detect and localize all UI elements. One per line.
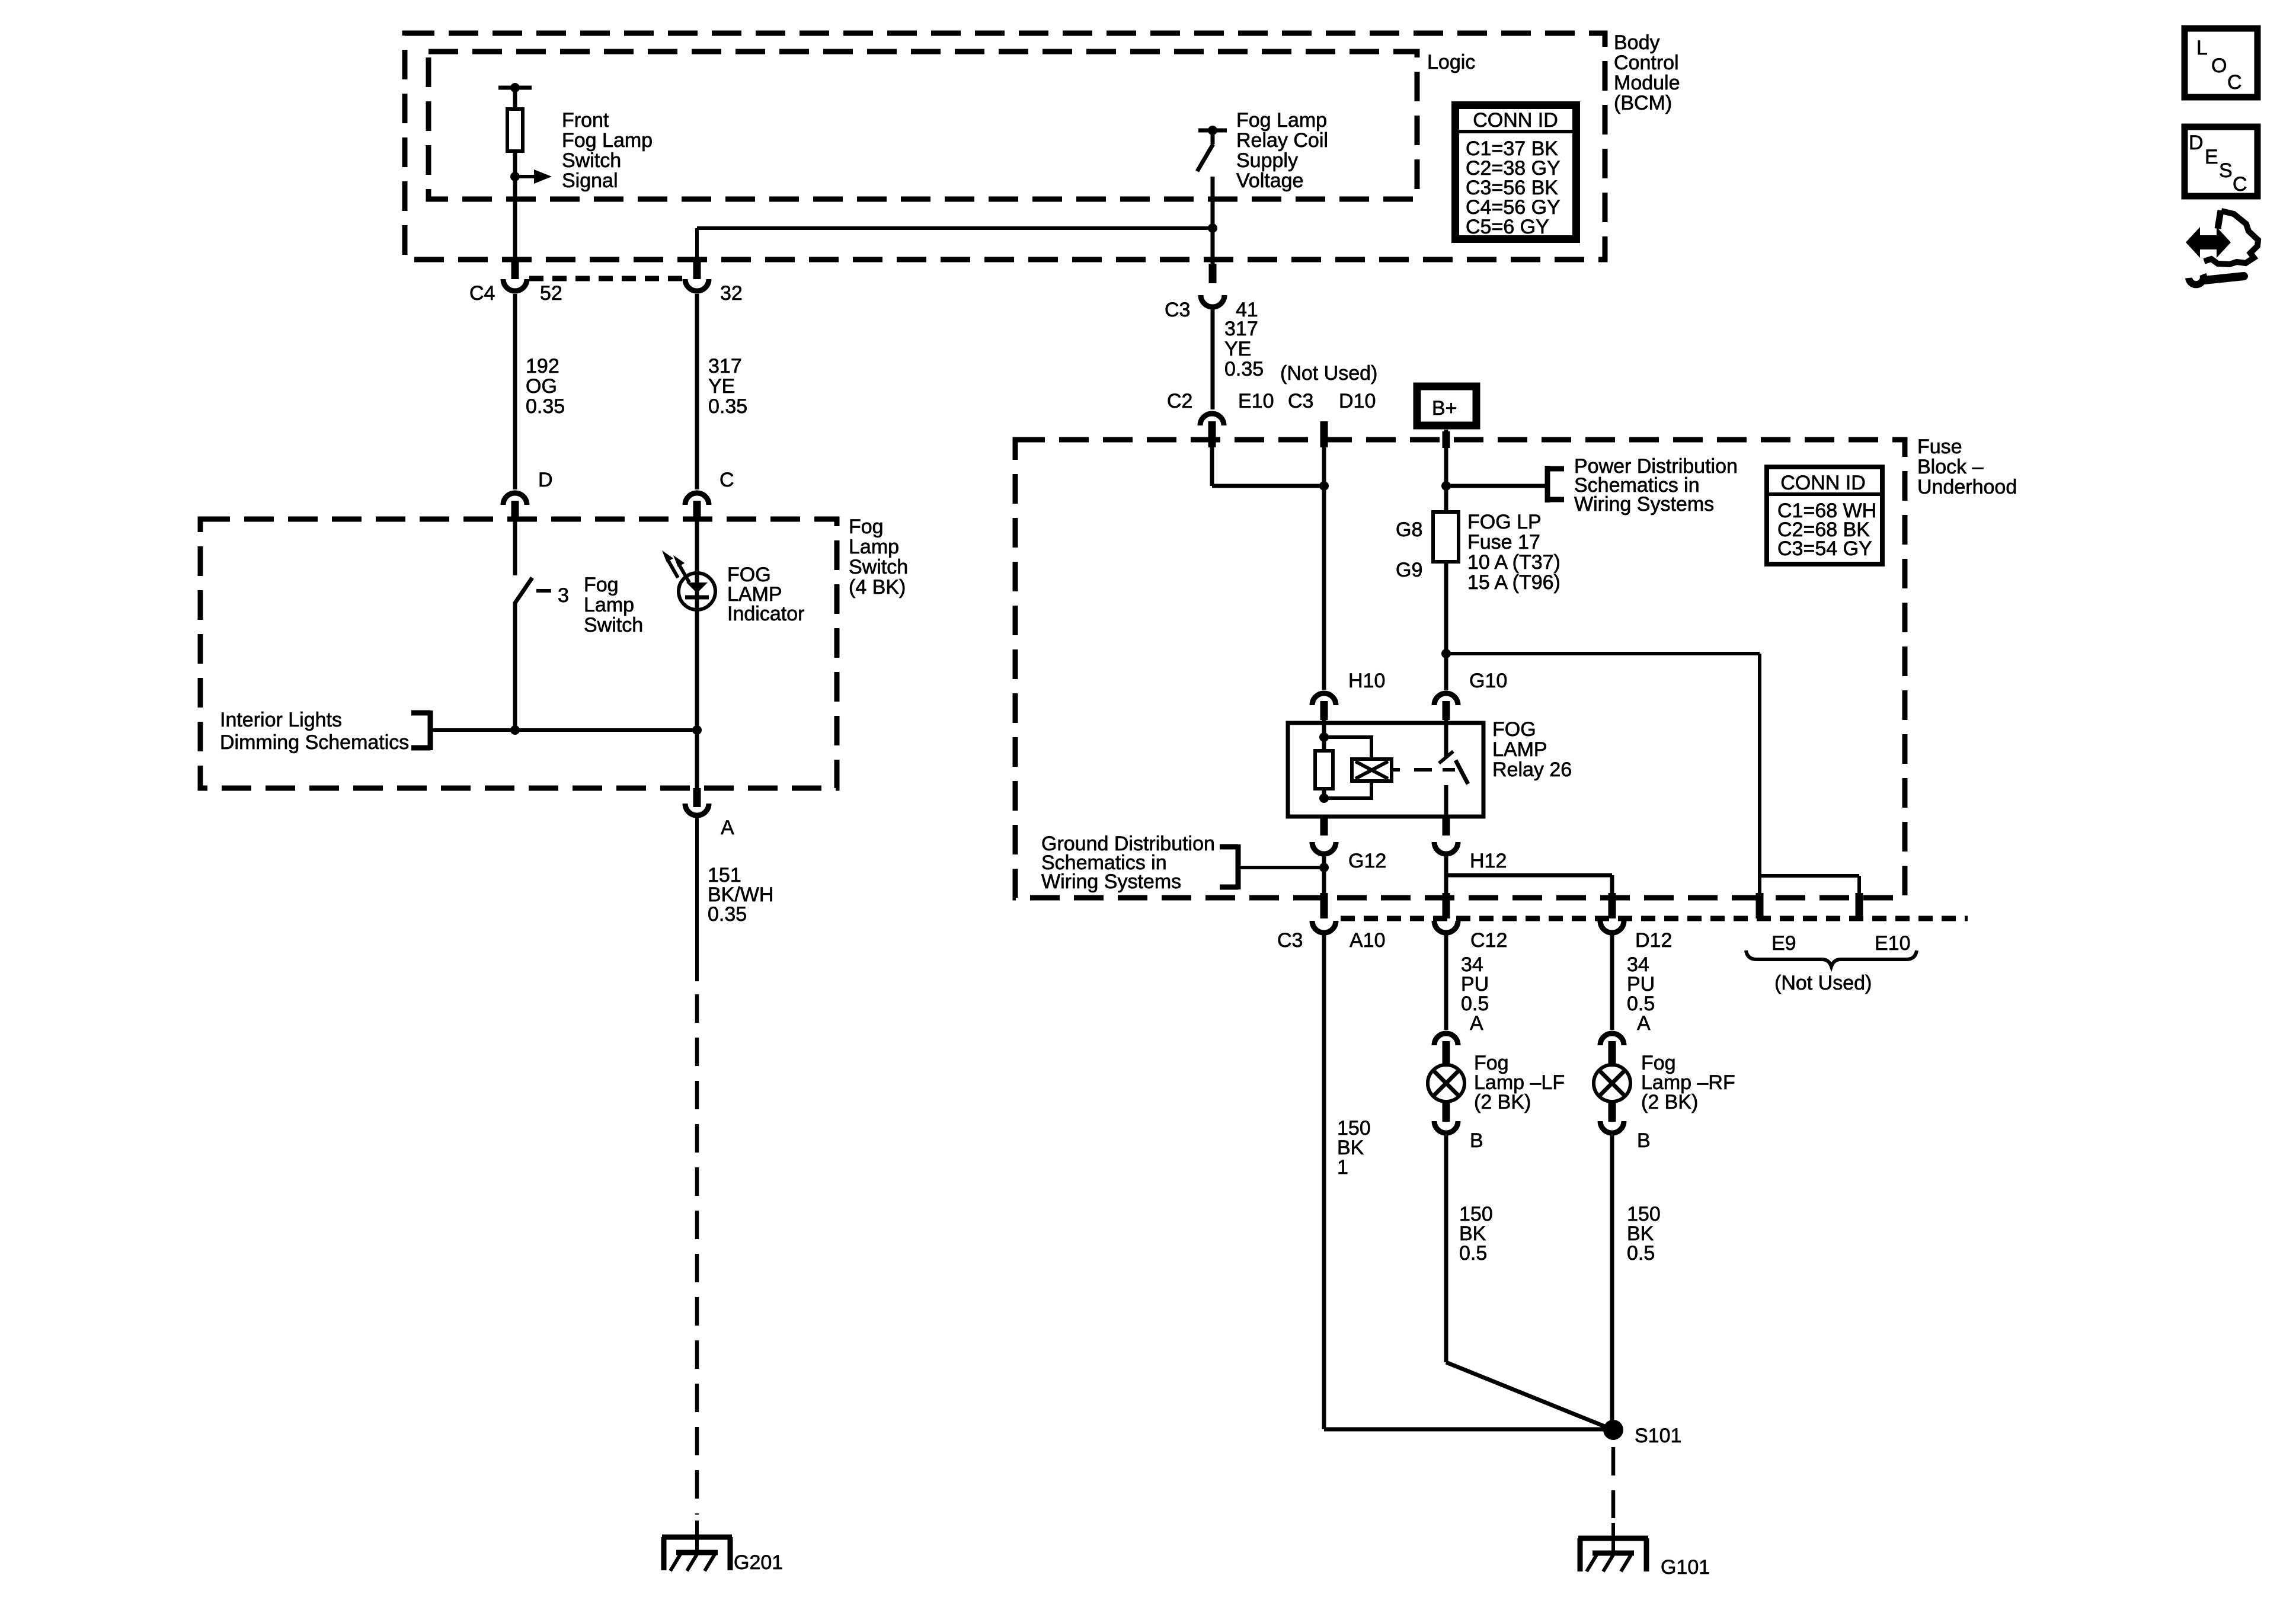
svg-text:1: 1 — [1337, 1156, 1348, 1179]
svg-text:Fog Lamp: Fog Lamp — [1236, 109, 1327, 132]
svg-text:YE: YE — [708, 375, 735, 398]
svg-text:Switch: Switch — [584, 614, 643, 636]
svg-text:C: C — [2233, 173, 2247, 196]
svg-text:C3: C3 — [1288, 390, 1313, 412]
svg-text:0.35: 0.35 — [1224, 358, 1264, 380]
connector C3 pin A10 — [1277, 893, 1386, 952]
wire horizontal logic 32 to switch — [697, 223, 1217, 233]
svg-text:O: O — [2211, 55, 2227, 77]
Logic inner dashed box — [428, 52, 1417, 199]
connector C4 pin 52 — [469, 260, 562, 305]
svg-text:Signal: Signal — [562, 169, 618, 192]
fuse FOG LP Fuse 17 — [1396, 511, 1560, 594]
LED fog lamp indicator — [662, 518, 804, 790]
svg-text:C5=6 GY: C5=6 GY — [1466, 216, 1549, 238]
svg-text:D10: D10 — [1339, 390, 1376, 412]
wire 34 PU 0.5 LF — [1446, 933, 1489, 1035]
svg-text:A: A — [1470, 1012, 1483, 1035]
wire BCM pin 32 to logic — [695, 228, 699, 261]
svg-text:B: B — [1470, 1129, 1483, 1152]
splice S101 — [1603, 1420, 1681, 1447]
svg-text:C12: C12 — [1470, 929, 1507, 952]
fog lamp LF — [1428, 1052, 1565, 1113]
svg-text:0.5: 0.5 — [1627, 1242, 1655, 1265]
dashed ground wire to G101 — [1611, 1447, 1616, 1518]
connector B fog lamp RF — [1600, 1102, 1651, 1152]
svg-text:FOG: FOG — [1492, 718, 1536, 741]
svg-text:Fog Lamp: Fog Lamp — [562, 129, 653, 152]
bracket: Ground Distribution Schematics in Wiring Systems — [1041, 833, 1238, 893]
svg-text:C: C — [720, 469, 734, 491]
connector C12 — [1434, 893, 1507, 952]
svg-text:G12: G12 — [1348, 850, 1386, 872]
svg-text:(Not Used): (Not Used) — [1280, 362, 1377, 385]
pin E9 tick — [1756, 893, 1796, 955]
wire resistor to C4 — [513, 177, 517, 261]
svg-text:LAMP: LAMP — [1492, 738, 1547, 761]
CONN ID table U2 (fuse block) — [1767, 467, 1882, 564]
brace (Not Used) E9-E10 — [1746, 950, 1917, 994]
svg-text:OG: OG — [526, 375, 557, 398]
connector C3 pin 41 — [1165, 264, 1258, 321]
connector C2 pin E10 (fuse block) — [1167, 390, 1274, 447]
svg-text:E10: E10 — [1238, 390, 1274, 412]
svg-text:E10: E10 — [1875, 932, 1911, 955]
pins C3 D10 not used tick — [1288, 390, 1376, 447]
wire G12 down to C3 A10 — [1322, 854, 1326, 896]
svg-text:H12: H12 — [1470, 850, 1507, 872]
(Not Used) label top — [1280, 362, 1377, 385]
wire 150 BK 0.5 RF to S101 — [1612, 1133, 1661, 1430]
svg-text:A: A — [1637, 1012, 1651, 1035]
ground G201 — [662, 1521, 783, 1574]
svg-text:Fuse: Fuse — [1917, 436, 1962, 458]
wire switch down to C3 — [1211, 177, 1215, 264]
BCM outer dashed box — [405, 33, 1605, 260]
wire 151 BK/WH 0.35 — [697, 815, 773, 981]
svg-text:G8: G8 — [1396, 518, 1422, 541]
svg-text:S: S — [2219, 159, 2233, 182]
svg-text:A10: A10 — [1350, 929, 1386, 952]
switch: fog lamp relay coil supply voltage — [1197, 109, 1328, 192]
connector D12 — [1600, 893, 1672, 952]
svg-text:B: B — [1637, 1129, 1651, 1152]
wire H12 down, branch to C12 and D12 — [1446, 854, 1612, 896]
wire 150 BK 1 to S101 — [1324, 933, 1613, 1429]
svg-text:L: L — [2196, 37, 2208, 59]
svg-text:G9: G9 — [1396, 559, 1422, 581]
svg-text:Wiring Systems: Wiring Systems — [1574, 493, 1714, 516]
svg-text:15 A (T96): 15 A (T96) — [1467, 571, 1560, 594]
svg-text:(BCM): (BCM) — [1614, 92, 1672, 114]
fog lamp RF — [1594, 1052, 1735, 1113]
svg-text:Switch: Switch — [562, 149, 621, 172]
node arrow: Front Fog Lamp Switch Signal — [510, 109, 653, 192]
bracket: Power Distribution Schematics in Wiring Systems — [1547, 455, 1738, 516]
svg-text:Body: Body — [1614, 31, 1660, 54]
bracket: Interior Lights Dimming Schematics — [220, 709, 430, 754]
svg-text:0.35: 0.35 — [708, 395, 747, 418]
svg-text:32: 32 — [720, 282, 743, 305]
svg-text:B+: B+ — [1432, 397, 1457, 420]
wire 150 BK 0.5 LF to S101 — [1446, 1133, 1613, 1430]
connector dashed line bottom of fuse block — [1341, 916, 1968, 921]
ground G101 — [1578, 1523, 1710, 1579]
relay coil — [1315, 719, 1333, 803]
wire interior lights dimming — [430, 725, 702, 735]
svg-text:Dimming Schematics: Dimming Schematics — [220, 731, 409, 754]
svg-text:CONN ID: CONN ID — [1473, 109, 1558, 132]
svg-text:YE: YE — [1224, 338, 1251, 360]
svg-text:C: C — [2227, 71, 2242, 94]
wire 317 YE 0.35 (right) — [1213, 307, 1264, 409]
wire junction to E9 E10 feed — [1446, 654, 1859, 895]
fog lamp switch blade — [514, 518, 532, 732]
wire ground bracket to G12 — [1238, 863, 1329, 872]
wire fuse to G10 junction — [1441, 561, 1451, 690]
svg-text:Relay Coil: Relay Coil — [1236, 129, 1328, 152]
connector dashed line C4-32 — [529, 276, 683, 281]
wire B+ down — [1441, 430, 1547, 513]
svg-text:FOG LP: FOG LP — [1467, 511, 1542, 533]
svg-text:Indicator: Indicator — [727, 603, 804, 625]
svg-text:(2 BK): (2 BK) — [1641, 1091, 1698, 1113]
connector G10 — [1434, 670, 1507, 720]
relay FOG LAMP Relay 26 box — [1288, 718, 1572, 817]
svg-text:Control: Control — [1614, 52, 1679, 74]
connector 32 — [685, 260, 743, 305]
svg-text:Voltage: Voltage — [1236, 169, 1303, 192]
svg-text:D: D — [2189, 132, 2204, 154]
pin E10 tick — [1856, 893, 1911, 955]
svg-text:D: D — [538, 469, 553, 491]
svg-text:C4: C4 — [469, 282, 495, 305]
svg-text:Block –: Block – — [1917, 456, 1984, 478]
relay solid state device loop — [1324, 737, 1400, 798]
wire 317 YE 0.35 (left) — [697, 294, 747, 489]
svg-text:G101: G101 — [1661, 1556, 1710, 1579]
svg-text:Wiring Systems: Wiring Systems — [1041, 870, 1181, 893]
svg-text:D12: D12 — [1635, 929, 1672, 952]
svg-text:Lamp: Lamp — [849, 536, 899, 558]
svg-text:Front: Front — [562, 109, 609, 132]
svg-text:Interior Lights: Interior Lights — [220, 709, 342, 731]
resistor (front fog lamp switch signal pull-up) — [498, 83, 532, 178]
icon: double arrow with vehicle and wrench — [2186, 210, 2258, 284]
svg-text:E9: E9 — [1771, 932, 1796, 955]
svg-text:52: 52 — [540, 282, 562, 305]
switch linkage and label Fog Lamp Switch — [536, 574, 643, 636]
wire C2 entry elbow — [1212, 446, 1329, 491]
wire D10 down to relay H10 — [1322, 446, 1326, 690]
svg-text:G201: G201 — [734, 1551, 783, 1574]
svg-text:3: 3 — [558, 584, 569, 607]
connector A (fog lamp switch) — [685, 788, 734, 839]
fuse block underhood dashed box — [1015, 440, 1905, 898]
connector G12 — [1312, 817, 1386, 872]
fog lamp switch dashed box — [200, 519, 837, 788]
svg-text:E: E — [2205, 146, 2218, 168]
svg-text:H10: H10 — [1348, 670, 1385, 692]
connector C — [685, 294, 734, 520]
svg-text:CONN ID: CONN ID — [1780, 472, 1866, 494]
Logic label — [1427, 51, 1475, 73]
dashed ground wire to G201 — [695, 994, 699, 1515]
svg-text:(2 BK): (2 BK) — [1474, 1091, 1531, 1113]
svg-text:0.35: 0.35 — [708, 903, 747, 926]
svg-text:Relay 26: Relay 26 — [1492, 758, 1572, 781]
relay switch contact — [1439, 719, 1468, 821]
svg-text:317: 317 — [1224, 318, 1258, 340]
connector H10 — [1312, 670, 1385, 720]
svg-text:Switch: Switch — [849, 556, 908, 578]
svg-text:Fog: Fog — [584, 574, 619, 596]
svg-text:Underhood: Underhood — [1917, 476, 2017, 498]
fog lamp switch box label — [849, 516, 908, 598]
svg-text:C3=54 GY: C3=54 GY — [1777, 537, 1872, 560]
svg-text:Supply: Supply — [1236, 149, 1298, 172]
fuse block label — [1917, 436, 2017, 498]
B+ terminal — [1417, 386, 1476, 425]
svg-text:0.5: 0.5 — [1459, 1242, 1487, 1265]
svg-text:317: 317 — [708, 355, 742, 377]
svg-text:Module: Module — [1614, 72, 1680, 94]
svg-text:C3: C3 — [1277, 929, 1303, 952]
svg-text:Logic: Logic — [1427, 51, 1475, 73]
relay linkage dashes — [1414, 768, 1455, 772]
connector B fog lamp LF — [1434, 1102, 1483, 1152]
svg-text:C2: C2 — [1167, 390, 1192, 412]
svg-text:192: 192 — [526, 355, 559, 377]
connector D — [503, 294, 553, 520]
DESC icon box — [2185, 127, 2257, 196]
CONN ID table U1 (BCM) — [1456, 105, 1576, 239]
svg-text:(Not Used): (Not Used) — [1774, 972, 1872, 994]
svg-text:Fog: Fog — [849, 516, 884, 538]
wire 192 OG 0.35 — [515, 294, 565, 489]
connector A fog lamp RF — [1600, 1033, 1624, 1065]
svg-text:A: A — [721, 817, 734, 839]
svg-text:C3: C3 — [1165, 299, 1190, 321]
svg-text:Lamp: Lamp — [584, 594, 634, 616]
svg-text:10 A (T37): 10 A (T37) — [1467, 551, 1560, 574]
LOC icon box — [2185, 28, 2257, 97]
connector A fog lamp LF — [1434, 1033, 1458, 1065]
BCM label Body Control Module (BCM) — [1614, 31, 1680, 114]
svg-text:0.35: 0.35 — [526, 395, 565, 418]
svg-text:(4 BK): (4 BK) — [849, 576, 906, 598]
svg-text:S101: S101 — [1635, 1425, 1681, 1447]
connector H12 — [1434, 817, 1507, 872]
svg-text:Fuse 17: Fuse 17 — [1467, 531, 1540, 553]
svg-text:G10: G10 — [1469, 670, 1507, 692]
wire 34 PU 0.5 RF — [1612, 933, 1655, 1035]
